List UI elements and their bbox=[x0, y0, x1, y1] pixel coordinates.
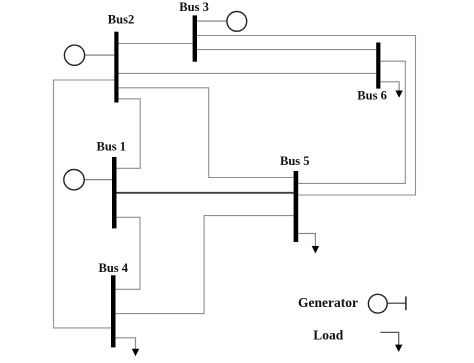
svg-text:Bus 4: Bus 4 bbox=[99, 261, 129, 275]
svg-text:Bus 3: Bus 3 bbox=[179, 0, 209, 14]
svg-text:Load: Load bbox=[313, 328, 344, 343]
svg-text:Bus2: Bus2 bbox=[108, 13, 134, 27]
svg-text:Generator: Generator bbox=[298, 295, 358, 310]
svg-text:Bus 5: Bus 5 bbox=[280, 154, 310, 168]
svg-text:Bus 1: Bus 1 bbox=[97, 139, 127, 153]
svg-text:Bus 6: Bus 6 bbox=[357, 89, 387, 103]
